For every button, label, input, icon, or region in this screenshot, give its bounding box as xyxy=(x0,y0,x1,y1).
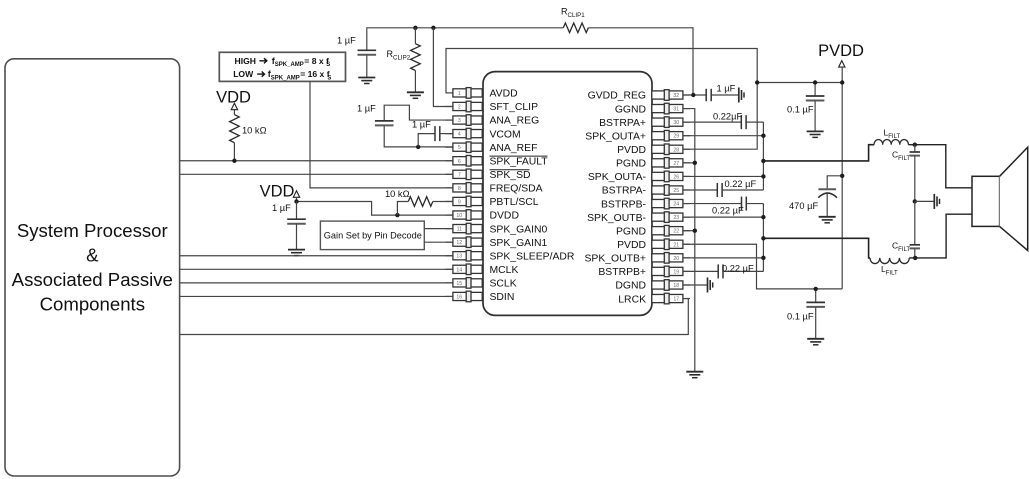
capacitor 1uF (VCOM) xyxy=(434,126,436,141)
svg-text:LFILT: LFILT xyxy=(881,264,898,276)
junction VDD pullup / pin6 wire xyxy=(232,159,236,163)
wire pin 7 SPK_SD xyxy=(180,173,453,175)
pin 18 DGND xyxy=(683,284,690,286)
wire AVDD to PVDD rail xyxy=(446,49,757,93)
svg-text:MCLK: MCLK xyxy=(490,265,519,276)
inductor LFILT (bottom) xyxy=(870,258,909,264)
pin 32 GVDD_REG xyxy=(683,94,690,96)
junction mid ground node xyxy=(913,199,917,203)
svg-text:3: 3 xyxy=(458,118,461,124)
svg-text:SPK_OUTA+: SPK_OUTA+ xyxy=(585,131,646,142)
svg-text:DVDD: DVDD xyxy=(490,211,519,222)
capacitor 1uF (ANA_REG) xyxy=(375,120,394,122)
svg-text:PVDD: PVDD xyxy=(617,145,646,156)
svg-text:0.1 µF: 0.1 µF xyxy=(787,312,814,322)
pin 3 ANA_REG xyxy=(445,119,453,121)
junction PVDD/AVDD line xyxy=(755,80,759,84)
svg-text:11: 11 xyxy=(457,227,462,233)
junction OUTA- node xyxy=(761,174,765,178)
pin 5 ANA_REF xyxy=(445,146,453,148)
svg-text:CFILT: CFILT xyxy=(892,150,910,162)
svg-text:1: 1 xyxy=(458,91,461,97)
junction PGND 22 xyxy=(693,229,697,233)
svg-text:0.1 µF: 0.1 µF xyxy=(787,105,814,115)
junction VDD2 node xyxy=(294,199,298,203)
wire pin 20 SPK_OUTB+ xyxy=(683,257,764,259)
wire pin 21 PVDD loop xyxy=(683,244,842,289)
junction top rail / RCLIP2 xyxy=(413,26,417,30)
wire ANA_REG cap to pin 5 ANA_REF xyxy=(384,126,453,147)
pin 30 BSTRPA+ xyxy=(683,121,690,123)
note box Gain Set by Pin Decode xyxy=(320,221,424,250)
capacitor 470uF (bulk) xyxy=(827,176,842,188)
junction node B filter tap xyxy=(761,236,765,240)
pin 7 SPK_SD xyxy=(445,173,453,175)
svg-text:RCLIP1: RCLIP1 xyxy=(561,7,585,19)
wire SFT_CLIP drop to pin 2 xyxy=(433,28,453,107)
svg-text:25: 25 xyxy=(673,188,679,194)
svg-text:PBTL/SCL: PBTL/SCL xyxy=(490,197,539,208)
wire pin 17 LRCK return xyxy=(180,299,689,335)
wire pin 23 SPK_OUTB- xyxy=(683,216,764,218)
svg-text:32: 32 xyxy=(673,93,679,99)
wire LFILT bottom to speaker xyxy=(909,214,972,258)
wire VCOM branch xyxy=(418,134,435,147)
svg-text:10: 10 xyxy=(456,213,462,219)
capacitor 0.22uF (BSTRPB-) xyxy=(683,203,742,205)
wire pin 14 MCLK xyxy=(180,268,453,270)
svg-text:= 16 x f: = 16 x f xyxy=(300,69,330,79)
pin 2 SFT_CLIP xyxy=(445,105,453,107)
ground (RCLIP2) xyxy=(407,91,424,93)
svg-text:Gain Set by Pin Decode: Gain Set by Pin Decode xyxy=(324,231,422,241)
capacitor 0.1uF (PVDD top) xyxy=(814,83,816,97)
pin 8 FREQ/SDA xyxy=(445,187,453,189)
svg-text:BSTRPA-: BSTRPA- xyxy=(602,186,646,197)
svg-text:22: 22 xyxy=(673,229,679,235)
svg-text:0.22 µF: 0.22 µF xyxy=(722,264,754,274)
pin 21 PVDD xyxy=(683,243,690,245)
capacitor 0.22uF (BSTRPA-) xyxy=(683,189,717,191)
svg-text:1 µF: 1 µF xyxy=(412,120,431,130)
svg-text:SPK_OUTB-: SPK_OUTB- xyxy=(587,213,646,224)
ground (0.1uF bottom) xyxy=(807,338,824,340)
capacitor 1uF (SFT_CLIP) xyxy=(366,27,368,50)
pin 4 VCOM xyxy=(445,133,453,135)
svg-text:VDD: VDD xyxy=(260,183,295,201)
wire PVDD rail xyxy=(841,67,843,289)
svg-text:470 µF: 470 µF xyxy=(789,201,818,211)
junction ANA_REF node xyxy=(416,145,420,149)
wire pin 18 DGND xyxy=(683,284,708,286)
op-amp U1 amplifier IC body xyxy=(483,72,652,316)
svg-text:S: S xyxy=(327,75,331,81)
pin 31 GGND xyxy=(683,108,690,110)
wire pin 16 SDIN xyxy=(180,295,453,297)
capacitor 0.22uF (BSTRPB+) xyxy=(683,270,718,272)
capacitor 0.22uF (BSTRPA+) xyxy=(683,121,741,123)
wire pin 13 SPK_SLEEP/ADR xyxy=(180,255,453,257)
pin 28 PVDD xyxy=(683,148,690,150)
wire pin 3 ANA_REG to cap xyxy=(384,105,453,121)
junction OUTB+ node xyxy=(761,256,765,260)
wire mid node to CFILT bottom xyxy=(914,201,916,244)
svg-text:2: 2 xyxy=(458,104,461,110)
svg-text:SPK_GAIN0: SPK_GAIN0 xyxy=(490,224,548,235)
ground (DVDD cap) xyxy=(288,249,305,251)
svg-text:FREQ/SDA: FREQ/SDA xyxy=(490,184,543,195)
wire SFT_CLIP node top rail xyxy=(367,27,563,29)
capacitor 1uF (GVDD_REG) xyxy=(705,89,707,101)
svg-text:LFILT: LFILT xyxy=(884,128,901,140)
svg-text:8: 8 xyxy=(458,186,461,192)
svg-text:17: 17 xyxy=(673,297,679,303)
pin 20 SPK_OUTB+ xyxy=(683,257,690,259)
svg-text:4: 4 xyxy=(458,132,461,138)
capacitor 1uF (DVDD) xyxy=(296,202,298,220)
pin 29 SPK_OUTA+ xyxy=(683,135,690,137)
svg-text:7: 7 xyxy=(458,172,461,178)
wire LFILT top to speaker xyxy=(908,145,972,188)
svg-text:0.22µF: 0.22µF xyxy=(713,112,742,122)
svg-text:20: 20 xyxy=(673,256,679,262)
svg-text:24: 24 xyxy=(673,202,679,208)
ground (0.1uF top) xyxy=(807,130,824,132)
wire pin 15 SCLK xyxy=(180,282,453,284)
svg-text:SPK_OUTA-: SPK_OUTA- xyxy=(588,172,646,183)
junction 0.1uF top xyxy=(813,80,817,84)
pin 26 SPK_OUTA- xyxy=(683,175,690,177)
svg-text:SDIN: SDIN xyxy=(490,292,515,303)
junction 0.1uF bottom xyxy=(814,287,818,291)
svg-text:30: 30 xyxy=(673,120,679,126)
wire pin 26 SPK_OUTA- xyxy=(683,175,764,177)
svg-text:29: 29 xyxy=(673,134,679,140)
resistor RCLIP2 xyxy=(414,28,416,44)
wire pin 27 PGND xyxy=(683,162,695,164)
svg-text:0.22 µF: 0.22 µF xyxy=(725,179,757,189)
svg-text:15: 15 xyxy=(456,281,462,287)
svg-text:27: 27 xyxy=(673,161,679,167)
wire pin 22 PGND xyxy=(683,230,695,232)
svg-text:BSTRPB-: BSTRPB- xyxy=(601,199,646,210)
pin 12 SPK_GAIN1 xyxy=(445,241,453,243)
svg-text:28: 28 xyxy=(673,147,679,153)
svg-text:1 µF: 1 µF xyxy=(272,203,291,213)
svg-text:LOW: LOW xyxy=(233,69,254,79)
svg-text:21: 21 xyxy=(673,242,679,248)
wire gain box to pin 12 SPK_GAIN1 xyxy=(424,241,453,243)
junction node A filter tap xyxy=(761,159,765,163)
ground (GVDD_REG cap) xyxy=(738,88,740,103)
wire node A to LC filter xyxy=(763,145,874,161)
svg-text:1 µF: 1 µF xyxy=(337,36,356,46)
svg-text:RCLIP2: RCLIP2 xyxy=(387,49,411,61)
svg-text:ANA_REF: ANA_REF xyxy=(490,143,538,154)
junction top rail / SFT_CLIP drop xyxy=(431,26,435,30)
junction DVDD / 10k branch xyxy=(395,213,399,217)
junction OUTB- node xyxy=(761,215,765,219)
wire pin 28 PVDD xyxy=(683,83,757,150)
node A vertical (SPK_OUTA) xyxy=(762,122,764,190)
junction 470uF rail xyxy=(840,174,844,178)
wire pin 29 SPK_OUTA+ xyxy=(683,135,764,137)
svg-text:SPK_SLEEP/ADR: SPK_SLEEP/ADR xyxy=(490,251,575,262)
junction CFILT top xyxy=(913,143,917,147)
note box HIGH/LOW fSPK_AMP xyxy=(219,52,345,81)
svg-text:23: 23 xyxy=(673,215,679,221)
resistor 10k pull-up (SPK_FAULT) xyxy=(233,110,235,115)
wire VDD2 to DVDD xyxy=(297,197,453,215)
junction PGND 27 xyxy=(693,161,697,165)
speaker xyxy=(972,176,1000,226)
pin 14 MCLK xyxy=(445,268,453,270)
pin 6 SPK_FAULT xyxy=(445,160,453,162)
svg-text:GGND: GGND xyxy=(615,104,646,115)
svg-text:10 kΩ: 10 kΩ xyxy=(385,189,410,199)
svg-text:SPK_FAULT: SPK_FAULT xyxy=(490,156,549,167)
wire GGND/PGND to ground xyxy=(683,109,695,372)
pin 24 BSTRPB- xyxy=(683,203,690,205)
pin 9 PBTL/SCL xyxy=(445,200,453,202)
ground (SFT_CLIP cap) xyxy=(358,77,375,79)
svg-text:HIGH: HIGH xyxy=(235,56,256,66)
svg-text:SPK_OUTB+: SPK_OUTB+ xyxy=(584,254,646,265)
svg-text:19: 19 xyxy=(673,269,679,275)
svg-text:PGND: PGND xyxy=(616,159,646,170)
svg-text:14: 14 xyxy=(456,267,462,273)
wire PVDD top branch xyxy=(757,82,842,84)
svg-text:VCOM: VCOM xyxy=(490,129,521,140)
svg-text:1 µF: 1 µF xyxy=(717,84,736,94)
ground (DGND) xyxy=(707,277,709,292)
capacitor CFILT (bottom) xyxy=(910,244,920,246)
svg-text:PVDD: PVDD xyxy=(818,42,864,60)
svg-text:LRCK: LRCK xyxy=(618,294,646,305)
svg-text:9: 9 xyxy=(458,199,461,205)
svg-text:BSTRPA+: BSTRPA+ xyxy=(599,118,646,129)
svg-text:SPK_SD: SPK_SD xyxy=(490,170,531,181)
node B vertical (SPK_OUTB) xyxy=(762,204,764,272)
svg-text:13: 13 xyxy=(456,254,462,260)
svg-text:PVDD: PVDD xyxy=(617,240,646,251)
svg-text:0.22 µF: 0.22 µF xyxy=(712,206,744,216)
svg-text:6: 6 xyxy=(458,159,461,165)
svg-text:1 µF: 1 µF xyxy=(357,104,376,114)
svg-text:AVDD: AVDD xyxy=(490,89,518,100)
svg-text:16: 16 xyxy=(456,294,462,300)
svg-text:Components: Components xyxy=(40,294,145,315)
svg-text:12: 12 xyxy=(456,240,462,246)
svg-text:ANA_REG: ANA_REG xyxy=(490,116,540,127)
wire VCOM cap to pin 4 xyxy=(440,133,453,135)
capacitor 0.1uF (PVDD bottom) xyxy=(815,289,817,303)
svg-text:S: S xyxy=(326,62,330,68)
ground (470uF) xyxy=(819,216,836,218)
junction PVDD rail top xyxy=(840,80,844,84)
svg-text:CFILT: CFILT xyxy=(892,241,910,253)
resistor RCLIP1 xyxy=(563,23,588,33)
pin 17 LRCK xyxy=(683,298,690,300)
wire HIGH/LOW box to pin 8 FREQ/SDA xyxy=(310,81,453,187)
pin 10 DVDD xyxy=(445,214,453,216)
svg-text:18: 18 xyxy=(673,283,679,289)
pin 13 SPK_SLEEP/ADR xyxy=(445,255,453,257)
wire gain box to pin 11 SPK_GAIN0 xyxy=(424,228,453,230)
pin 27 PGND xyxy=(683,162,690,164)
svg-text:DGND: DGND xyxy=(615,281,646,292)
svg-text:System Processor: System Processor xyxy=(17,220,168,241)
svg-text:26: 26 xyxy=(673,174,679,180)
svg-text:Associated Passive: Associated Passive xyxy=(12,269,173,290)
system processor box xyxy=(5,59,180,476)
pin 23 SPK_OUTB- xyxy=(683,216,690,218)
svg-text:SCLK: SCLK xyxy=(490,279,517,290)
svg-text:PGND: PGND xyxy=(616,226,646,237)
junction GVDD_REG / RCLIP1 xyxy=(691,93,695,97)
wire pin 32 GVDD_REG xyxy=(683,94,706,96)
junction CFILT bottom xyxy=(913,256,917,260)
wire mid node to ground xyxy=(915,200,935,202)
pin 16 SDIN xyxy=(445,295,453,297)
wire node B to LC filter xyxy=(763,238,870,258)
pin 19 BSTRPB+ xyxy=(683,270,690,272)
junction OUTA+ node xyxy=(761,134,765,138)
svg-text:BSTRPB+: BSTRPB+ xyxy=(598,267,646,278)
ground (filter mid) xyxy=(933,194,935,209)
ground (main, below IC) xyxy=(686,371,703,373)
pin 25 BSTRPA- xyxy=(683,189,690,191)
wire CFILT top to mid node xyxy=(914,156,916,202)
svg-text:GVDD_REG: GVDD_REG xyxy=(588,91,646,102)
pin 11 SPK_GAIN0 xyxy=(445,228,453,230)
svg-text:31: 31 xyxy=(673,107,679,113)
svg-text:10 kΩ: 10 kΩ xyxy=(242,126,267,136)
svg-text:5: 5 xyxy=(458,145,461,151)
pin 1 AVDD xyxy=(445,92,453,94)
wire pin 6 SPK_FAULT xyxy=(180,160,453,162)
pin 15 SCLK xyxy=(445,282,453,284)
svg-text:SFT_CLIP: SFT_CLIP xyxy=(490,102,539,113)
svg-text:&: & xyxy=(86,245,99,266)
capacitor CFILT (top) xyxy=(914,145,916,152)
svg-text:SPK_GAIN1: SPK_GAIN1 xyxy=(490,238,548,249)
inductor LFILT (top) xyxy=(874,140,908,145)
pin 22 PGND xyxy=(683,230,690,232)
resistor 10k (PBTL/SCL) xyxy=(397,202,408,216)
